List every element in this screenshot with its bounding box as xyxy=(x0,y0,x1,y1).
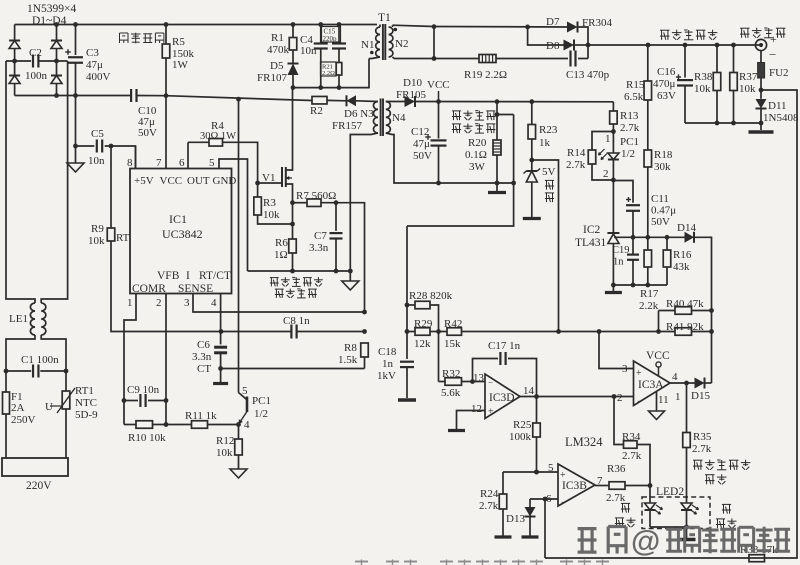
svg-text:R17: R17 xyxy=(640,288,659,300)
svg-text:10k: 10k xyxy=(739,83,756,95)
svg-text:30k: 30k xyxy=(654,161,671,173)
svg-text:R25: R25 xyxy=(513,419,532,431)
svg-text:IC3A: IC3A xyxy=(638,379,664,391)
svg-text:1N5399×4: 1N5399×4 xyxy=(27,3,77,15)
svg-text:R36: R36 xyxy=(607,463,626,475)
svg-text:10k: 10k xyxy=(216,447,233,459)
svg-text:R11 1k: R11 1k xyxy=(185,410,217,422)
svg-text:1k: 1k xyxy=(539,137,551,149)
svg-text:FR157: FR157 xyxy=(332,120,362,132)
svg-text:2A: 2A xyxy=(11,402,25,414)
svg-text:I: I xyxy=(186,270,190,282)
svg-text:R12: R12 xyxy=(216,435,234,447)
svg-text:R38: R38 xyxy=(694,71,713,83)
svg-text:3.3n: 3.3n xyxy=(309,242,329,254)
svg-text:R9: R9 xyxy=(91,223,104,235)
svg-text:R7 560Ω: R7 560Ω xyxy=(296,190,336,202)
svg-text:+: + xyxy=(636,368,642,379)
svg-text:50V: 50V xyxy=(651,216,670,228)
svg-text:1n: 1n xyxy=(382,358,394,370)
svg-text:VCC: VCC xyxy=(160,175,183,187)
svg-text:CT: CT xyxy=(197,363,211,375)
svg-text:C13 470p: C13 470p xyxy=(566,69,610,81)
svg-text:2.7k: 2.7k xyxy=(692,443,712,455)
svg-text:220p: 220p xyxy=(323,35,338,43)
svg-text:D8: D8 xyxy=(546,40,560,52)
svg-text:PC1: PC1 xyxy=(252,395,271,407)
svg-text:1/2: 1/2 xyxy=(254,408,268,420)
svg-text:250V: 250V xyxy=(11,414,36,426)
svg-text:R13: R13 xyxy=(620,110,639,122)
svg-text:C5: C5 xyxy=(91,128,104,140)
svg-text:100n: 100n xyxy=(25,70,48,82)
svg-text:1Ω: 1Ω xyxy=(274,249,288,261)
svg-text:5.6k: 5.6k xyxy=(441,387,461,399)
svg-text:C9 10n: C9 10n xyxy=(127,384,160,396)
svg-text:U: U xyxy=(45,401,53,413)
svg-text:3W: 3W xyxy=(469,161,486,173)
svg-text:+: + xyxy=(488,407,494,418)
svg-text:63V: 63V xyxy=(657,90,676,102)
svg-text:11: 11 xyxy=(658,394,669,406)
svg-text:R6: R6 xyxy=(275,237,288,249)
svg-text:5V: 5V xyxy=(542,166,556,178)
svg-text:5: 5 xyxy=(242,385,248,397)
svg-text:TL431: TL431 xyxy=(575,237,607,249)
svg-text:C12: C12 xyxy=(411,126,429,138)
svg-text:R2: R2 xyxy=(310,105,323,117)
svg-text:C3: C3 xyxy=(86,47,99,59)
svg-text:470μ: 470μ xyxy=(653,78,676,90)
svg-text:D6 N3: D6 N3 xyxy=(344,108,374,120)
svg-text:R14: R14 xyxy=(567,147,586,159)
svg-text:N1: N1 xyxy=(361,39,374,51)
svg-text:3.3n: 3.3n xyxy=(192,351,212,363)
svg-text:2.2Ω: 2.2Ω xyxy=(322,70,335,77)
svg-text:R1: R1 xyxy=(271,32,284,44)
svg-text:C17 1n: C17 1n xyxy=(488,340,521,352)
svg-text:IC3D: IC3D xyxy=(489,392,515,404)
svg-text:1W: 1W xyxy=(172,59,189,71)
svg-text:2.7k: 2.7k xyxy=(479,500,499,512)
svg-text:C6: C6 xyxy=(197,339,210,351)
svg-text:2.7k: 2.7k xyxy=(620,122,640,134)
svg-text:N2: N2 xyxy=(395,38,408,50)
svg-text:D15: D15 xyxy=(691,390,710,402)
svg-text:−: − xyxy=(561,497,566,507)
svg-text:R35: R35 xyxy=(693,431,712,443)
svg-text:T1: T1 xyxy=(378,12,391,24)
svg-text:R41 92k: R41 92k xyxy=(666,321,704,333)
svg-text:2: 2 xyxy=(617,392,623,404)
svg-text:10n: 10n xyxy=(300,45,317,57)
svg-text:10k: 10k xyxy=(263,209,280,221)
svg-text:C8 1n: C8 1n xyxy=(283,315,310,327)
svg-text:12k: 12k xyxy=(414,338,431,350)
svg-text:SENSE: SENSE xyxy=(178,283,213,295)
svg-text:RT1: RT1 xyxy=(75,385,94,397)
svg-text:R37: R37 xyxy=(739,71,758,83)
svg-text:30Ω 1W: 30Ω 1W xyxy=(200,131,236,142)
svg-text:COMR: COMR xyxy=(132,283,166,295)
svg-text:R18: R18 xyxy=(654,149,673,161)
svg-text:R29: R29 xyxy=(414,318,433,330)
svg-text:D13: D13 xyxy=(506,513,525,525)
svg-text:14: 14 xyxy=(523,385,535,397)
svg-text:100k: 100k xyxy=(509,431,532,443)
svg-text:43k: 43k xyxy=(673,261,690,273)
svg-text:V1: V1 xyxy=(262,172,275,184)
svg-text:D5: D5 xyxy=(270,60,284,72)
svg-text:5D-9: 5D-9 xyxy=(75,409,98,421)
svg-text:220V: 220V xyxy=(26,480,52,492)
svg-text:2.7k: 2.7k xyxy=(566,159,586,171)
svg-text:LE1: LE1 xyxy=(9,313,28,325)
svg-text:VCC: VCC xyxy=(427,79,450,91)
svg-text:C2: C2 xyxy=(29,47,42,59)
svg-text:R32: R32 xyxy=(442,368,460,380)
svg-text:1kV: 1kV xyxy=(377,370,396,382)
svg-text:D1~D4: D1~D4 xyxy=(32,15,67,27)
svg-text:2: 2 xyxy=(603,168,609,180)
svg-text:10k: 10k xyxy=(88,235,105,247)
svg-text:R20: R20 xyxy=(468,137,487,149)
svg-text:13: 13 xyxy=(473,372,485,384)
svg-text:OUT: OUT xyxy=(187,175,210,187)
svg-text:47μ: 47μ xyxy=(413,138,430,150)
svg-text:PC1: PC1 xyxy=(620,136,639,148)
svg-text:R10 10k: R10 10k xyxy=(128,432,166,444)
svg-text:C19: C19 xyxy=(612,245,630,256)
svg-text:+5V: +5V xyxy=(134,175,154,187)
svg-text:15k: 15k xyxy=(444,338,461,350)
svg-text:R3: R3 xyxy=(263,197,276,209)
svg-text:R40 47k: R40 47k xyxy=(666,298,704,310)
svg-text:R19 2.2Ω: R19 2.2Ω xyxy=(464,69,507,81)
svg-text:6.5k: 6.5k xyxy=(624,91,644,103)
svg-text:@: @ xyxy=(631,525,660,558)
svg-text:−: − xyxy=(769,47,776,62)
svg-text:8: 8 xyxy=(127,157,133,169)
svg-text:2.2k: 2.2k xyxy=(639,300,659,312)
svg-text:R34: R34 xyxy=(622,431,641,443)
svg-text:GND: GND xyxy=(213,175,237,187)
svg-text:R5: R5 xyxy=(172,36,185,48)
svg-text:470k: 470k xyxy=(267,44,290,56)
svg-text:10k: 10k xyxy=(694,83,711,95)
svg-text:R8: R8 xyxy=(344,342,357,354)
svg-text:−: − xyxy=(637,396,642,406)
svg-text:2: 2 xyxy=(156,297,162,309)
svg-text:R24: R24 xyxy=(480,488,499,500)
svg-text:+: + xyxy=(770,32,777,46)
svg-text:50V: 50V xyxy=(413,150,432,162)
svg-text:FR105: FR105 xyxy=(396,89,426,101)
svg-text:3: 3 xyxy=(184,297,190,309)
svg-text:1n: 1n xyxy=(613,257,624,268)
svg-text:C18: C18 xyxy=(378,346,397,358)
svg-text:12: 12 xyxy=(471,403,482,415)
svg-text:4: 4 xyxy=(244,419,250,431)
svg-text:1/2: 1/2 xyxy=(621,148,635,160)
svg-text:C11: C11 xyxy=(651,193,669,205)
svg-text:RT/CT: RT/CT xyxy=(199,270,231,282)
svg-text:IC1: IC1 xyxy=(169,212,187,226)
svg-text:0.1Ω: 0.1Ω xyxy=(465,149,487,161)
svg-text:FR304: FR304 xyxy=(582,17,612,29)
svg-text:D7: D7 xyxy=(546,16,560,28)
svg-text:10n: 10n xyxy=(88,155,105,167)
svg-text:2.7k: 2.7k xyxy=(622,450,642,462)
svg-text:1: 1 xyxy=(605,133,611,145)
svg-text:1: 1 xyxy=(675,391,681,403)
svg-text:5: 5 xyxy=(209,157,215,169)
svg-text:7: 7 xyxy=(156,157,162,169)
svg-text:0.47μ: 0.47μ xyxy=(651,205,676,217)
svg-text:1: 1 xyxy=(127,297,133,309)
svg-text:FU2: FU2 xyxy=(769,67,789,79)
svg-text:4: 4 xyxy=(672,371,678,383)
svg-text:IC3B: IC3B xyxy=(562,480,587,492)
svg-text:N4: N4 xyxy=(392,112,406,124)
svg-text:NTC: NTC xyxy=(75,397,97,409)
svg-text:−: − xyxy=(488,378,493,388)
svg-text:2.7k: 2.7k xyxy=(606,492,626,504)
svg-text:R15: R15 xyxy=(626,79,645,91)
svg-text:C16: C16 xyxy=(657,66,676,78)
svg-text:1N5408: 1N5408 xyxy=(763,112,799,124)
svg-text:47μ: 47μ xyxy=(86,59,103,71)
svg-text:C1 100n: C1 100n xyxy=(21,354,59,366)
svg-text:IC2: IC2 xyxy=(583,224,601,236)
svg-text:VCC: VCC xyxy=(646,350,670,362)
svg-text:R16: R16 xyxy=(673,249,692,261)
svg-text:RT: RT xyxy=(116,232,130,244)
svg-text:R42: R42 xyxy=(444,318,462,330)
svg-text:+: + xyxy=(560,470,566,481)
svg-text:4: 4 xyxy=(211,297,217,309)
svg-text:R23: R23 xyxy=(539,124,558,136)
svg-text:1.5k: 1.5k xyxy=(338,354,358,366)
svg-text:VFB: VFB xyxy=(157,270,180,282)
svg-text:6: 6 xyxy=(179,157,185,169)
svg-text:LM324: LM324 xyxy=(565,435,603,449)
svg-text:FR107: FR107 xyxy=(257,72,287,84)
svg-text:R28 820k: R28 820k xyxy=(409,290,453,302)
svg-text:50V: 50V xyxy=(138,127,157,139)
svg-text:D11: D11 xyxy=(768,100,787,112)
svg-text:C7: C7 xyxy=(314,230,327,242)
svg-text:400V: 400V xyxy=(86,71,111,83)
svg-text:D10: D10 xyxy=(403,77,422,89)
svg-text:LED2: LED2 xyxy=(656,486,684,498)
svg-text:UC3842: UC3842 xyxy=(162,227,203,241)
svg-text:D14: D14 xyxy=(677,222,696,234)
